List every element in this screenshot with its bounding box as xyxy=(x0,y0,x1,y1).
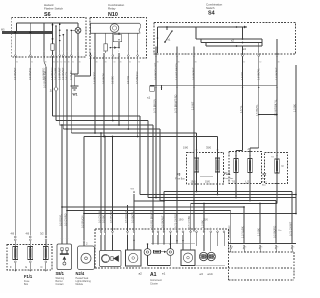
svg-text:0.5 BK: 0.5 BK xyxy=(110,76,114,84)
svg-text:Flasher Switch: Flasher Switch xyxy=(44,7,63,11)
svg-text:1: 1 xyxy=(176,228,177,230)
svg-text:1.5 BK/WT: 1.5 BK/WT xyxy=(275,67,279,80)
svg-text:Module: Module xyxy=(76,284,84,286)
svg-text:s1: s1 xyxy=(168,38,171,42)
svg-text:8: 8 xyxy=(232,247,233,249)
svg-text:3: 3 xyxy=(30,51,31,53)
svg-text:1.5 RD: 1.5 RD xyxy=(240,72,244,80)
svg-text:30: 30 xyxy=(16,61,18,63)
svg-text:Buzzer: Buzzer xyxy=(56,280,63,283)
svg-text:30: 30 xyxy=(120,61,122,63)
svg-text:8: 8 xyxy=(277,247,278,249)
svg-text:0.5 BK/WT: 0.5 BK/WT xyxy=(160,215,164,228)
svg-text:S6: S6 xyxy=(44,12,51,18)
svg-text:19/0: 19/0 xyxy=(179,219,184,222)
svg-text:x1: x1 xyxy=(147,96,151,100)
svg-text:1: 1 xyxy=(170,228,171,230)
svg-text:1.5 BN/WT: 1.5 BN/WT xyxy=(57,67,61,80)
svg-text:2: 2 xyxy=(193,51,194,53)
svg-text:Contact: Contact xyxy=(56,283,64,286)
svg-text:1: 1 xyxy=(112,51,113,53)
svg-text:Cluster: Cluster xyxy=(150,283,158,286)
svg-text:N2/4: N2/4 xyxy=(76,271,85,276)
svg-text:30: 30 xyxy=(243,61,245,63)
svg-text:Warning: Warning xyxy=(56,277,65,280)
svg-text:A1: A1 xyxy=(150,272,157,278)
svg-text:30: 30 xyxy=(64,61,66,63)
svg-text:0.5 BN/WT: 0.5 BN/WT xyxy=(109,210,113,223)
svg-text:19/0: 19/0 xyxy=(205,181,210,184)
svg-text:1: 1 xyxy=(203,228,204,230)
svg-text:8: 8 xyxy=(293,247,294,249)
svg-text:0.75 GY/RD: 0.75 GY/RD xyxy=(173,214,177,228)
svg-text:s2: s2 xyxy=(231,39,234,43)
svg-text:Relay: Relay xyxy=(108,7,116,11)
svg-text:0.5 BK/GN: 0.5 BK/GN xyxy=(135,71,139,84)
svg-text:F: F xyxy=(10,265,12,269)
svg-text:0.5 BK: 0.5 BK xyxy=(101,215,105,223)
svg-text:1: 1 xyxy=(223,228,224,230)
svg-text:30: 30 xyxy=(96,61,98,63)
svg-text:1: 1 xyxy=(182,228,183,230)
svg-text:0.5 BK/WT: 0.5 BK/WT xyxy=(13,67,17,80)
svg-text:3: 3 xyxy=(63,51,64,53)
svg-text:3: 3 xyxy=(77,51,78,53)
svg-text:2: 2 xyxy=(242,51,243,53)
svg-text:0.5 GY: 0.5 GY xyxy=(65,72,69,80)
svg-text:Instrument: Instrument xyxy=(150,279,162,282)
svg-text:1.5 WT BK/GN: 1.5 WT BK/GN xyxy=(175,63,179,80)
svg-text:M: M xyxy=(282,166,284,168)
svg-text:Lights Warning: Lights Warning xyxy=(76,280,92,283)
svg-text:G: G xyxy=(25,265,27,269)
svg-text:Heated Seat: Heated Seat xyxy=(76,277,89,280)
svg-text:e1: e1 xyxy=(162,272,166,276)
svg-text:19/3: 19/3 xyxy=(191,181,196,184)
svg-text:3/2: 3/2 xyxy=(40,231,44,235)
svg-text:1: 1 xyxy=(118,51,119,53)
svg-text:4/9: 4/9 xyxy=(11,231,15,235)
svg-text:3: 3 xyxy=(43,51,44,53)
svg-text:1: 1 xyxy=(210,228,211,230)
svg-text:0.5 BK/GN WT: 0.5 BK/GN WT xyxy=(154,62,158,80)
svg-text:W1: W1 xyxy=(73,93,78,97)
svg-text:F2: F2 xyxy=(263,172,267,176)
svg-text:3: 3 xyxy=(55,51,56,53)
svg-text:1.5 BK: 1.5 BK xyxy=(292,104,296,112)
svg-text:0.5 BK/RD: 0.5 BK/RD xyxy=(272,226,276,238)
svg-text:2: 2 xyxy=(258,51,259,53)
svg-text:S4: S4 xyxy=(208,11,215,17)
svg-text:30: 30 xyxy=(31,61,33,63)
svg-text:0.5 RD: 0.5 RD xyxy=(126,76,130,84)
svg-text:30: 30 xyxy=(45,61,47,63)
svg-text:2: 2 xyxy=(276,51,277,53)
svg-text:1.5 BK: 1.5 BK xyxy=(200,220,204,228)
svg-text:0.5 GN/BK: 0.5 GN/BK xyxy=(54,67,58,80)
svg-text:30: 30 xyxy=(129,61,131,63)
svg-text:0.75 GY/WT: 0.75 GY/WT xyxy=(288,221,292,236)
svg-text:1: 1 xyxy=(152,228,153,230)
svg-text:4/9: 4/9 xyxy=(26,231,30,235)
svg-text:0.5 RD/YL: 0.5 RD/YL xyxy=(58,213,62,226)
svg-text:30: 30 xyxy=(138,61,140,63)
svg-text:1: 1 xyxy=(157,228,158,230)
svg-text:0.5 BN/BK RD: 0.5 BN/BK RD xyxy=(42,71,46,88)
svg-text:1: 1 xyxy=(163,228,164,230)
svg-text:0.75 BN: 0.75 BN xyxy=(69,71,73,80)
svg-text:C: C xyxy=(41,265,43,269)
svg-text:1.5 BK/RD: 1.5 BK/RD xyxy=(93,72,97,84)
svg-text:0.5 GY/BK: 0.5 GY/BK xyxy=(97,210,101,223)
svg-text:3: 3 xyxy=(52,51,53,53)
svg-text:3: 3 xyxy=(59,51,60,53)
svg-text:30: 30 xyxy=(68,61,70,63)
svg-text:0.5 BK/RD: 0.5 BK/RD xyxy=(28,68,32,80)
svg-text:30: 30 xyxy=(195,61,197,63)
svg-text:a2: a2 xyxy=(139,272,143,276)
svg-text:30: 30 xyxy=(72,61,74,63)
svg-text:1.5 YL/BK: 1.5 YL/BK xyxy=(240,226,244,238)
svg-text:3: 3 xyxy=(71,51,72,53)
svg-text:30: 30 xyxy=(105,61,107,63)
svg-text:0.5 BK/YL: 0.5 BK/YL xyxy=(102,72,106,84)
svg-text:1.5 BK/YL: 1.5 BK/YL xyxy=(256,68,260,80)
svg-text:30: 30 xyxy=(53,61,55,63)
svg-text:7/3: 7/3 xyxy=(232,180,236,183)
svg-text:1: 1 xyxy=(103,51,104,53)
svg-text:0.5 RD/GN: 0.5 RD/GN xyxy=(124,210,128,223)
svg-text:s3: s3 xyxy=(243,47,246,51)
svg-text:e3: e3 xyxy=(200,272,204,276)
svg-text:30: 30 xyxy=(57,61,59,63)
svg-text:30: 30 xyxy=(60,61,62,63)
svg-text:Switch: Switch xyxy=(206,6,215,10)
svg-text:0.5 BK/YL: 0.5 BK/YL xyxy=(130,211,134,223)
svg-text:1: 1 xyxy=(137,51,138,53)
svg-text:Fuse: Fuse xyxy=(262,181,268,183)
svg-text:2: 2 xyxy=(176,51,177,53)
svg-text:0.5 BK/WT: 0.5 BK/WT xyxy=(192,67,196,80)
svg-text:e14: e14 xyxy=(208,272,213,276)
svg-text:F3: F3 xyxy=(177,173,181,177)
svg-text:30: 30 xyxy=(113,61,115,63)
svg-text:Fuse Box: Fuse Box xyxy=(175,178,186,180)
svg-text:8: 8 xyxy=(261,247,262,249)
svg-text:35/0: 35/0 xyxy=(206,145,212,149)
svg-text:0.5 GY/RD: 0.5 GY/RD xyxy=(63,213,67,226)
svg-text:1: 1 xyxy=(94,51,95,53)
svg-text:1: 1 xyxy=(196,228,197,230)
svg-text:3: 3 xyxy=(15,51,16,53)
svg-text:1: 1 xyxy=(217,228,218,230)
svg-text:L/2: L/2 xyxy=(246,180,250,183)
svg-text:0.5 RD BK/WT: 0.5 RD BK/WT xyxy=(149,211,153,228)
svg-text:30: 30 xyxy=(278,61,280,63)
svg-text:0.5 BK/WT: 0.5 BK/WT xyxy=(61,67,65,80)
svg-text:30: 30 xyxy=(259,61,261,63)
svg-text:3: 3 xyxy=(66,51,67,53)
svg-text:8: 8 xyxy=(245,247,246,249)
svg-text:1.5 BK/GN: 1.5 BK/GN xyxy=(50,67,54,80)
svg-text:0.5 GY/BK: 0.5 GY/BK xyxy=(187,215,191,228)
svg-text:1: 1 xyxy=(128,51,129,53)
svg-text:Za: Za xyxy=(50,88,54,92)
svg-text:30: 30 xyxy=(79,61,81,63)
svg-text:M5: M5 xyxy=(1,29,5,32)
svg-text:0.5 BK/GN: 0.5 BK/GN xyxy=(227,225,231,238)
svg-text:S8/1: S8/1 xyxy=(56,271,65,276)
svg-text:1.5 BK: 1.5 BK xyxy=(256,228,260,236)
svg-text:1: 1 xyxy=(190,228,191,230)
svg-text:0.5 BN/GN: 0.5 BN/GN xyxy=(80,215,84,228)
svg-text:F1/1: F1/1 xyxy=(224,172,231,176)
svg-text:19/0: 19/0 xyxy=(183,145,189,149)
svg-text:2: 2 xyxy=(155,51,156,53)
svg-text:F1/1: F1/1 xyxy=(24,274,33,279)
